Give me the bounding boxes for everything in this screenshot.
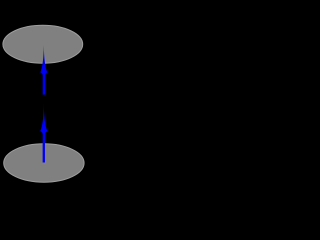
arrow B head [40, 104, 47, 134]
arrow A head [40, 45, 47, 75]
bottom disk [4, 144, 84, 182]
top disk [3, 25, 83, 63]
arrow B shaft [43, 131, 45, 163]
arrow A shaft [43, 72, 45, 95]
